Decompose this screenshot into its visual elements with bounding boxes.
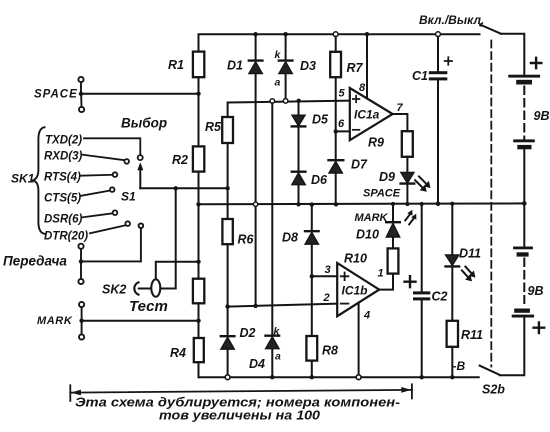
terminal SPACE xyxy=(78,77,84,112)
wire R2 down through test column xyxy=(198,172,200,279)
node switch pivot xyxy=(479,23,482,26)
R7-D7 COLUMN x=335.7 xyxy=(329,32,369,207)
wire pin 3 stub xyxy=(312,275,337,277)
svg-text:4: 4 xyxy=(363,310,370,322)
svg-text:D10: D10 xyxy=(356,228,379,242)
brace SK1 xyxy=(33,127,44,234)
wire mid rail to cell 3 xyxy=(523,203,525,246)
svg-text:Передача: Передача xyxy=(3,254,67,269)
wire pin 8 to top rail xyxy=(366,34,368,98)
battery dashed section xyxy=(523,87,525,140)
wire cell2 to mid rail xyxy=(523,149,525,203)
wire C1 to mid rail xyxy=(437,80,439,204)
plus mark C2 xyxy=(405,276,416,287)
node S1 common contact xyxy=(138,155,143,160)
svg-text:k: k xyxy=(275,49,282,61)
svg-text:R1: R1 xyxy=(168,58,184,72)
node D3 bottom (open) xyxy=(283,99,288,104)
diode D4 xyxy=(249,336,279,371)
node bottom rail xyxy=(450,375,454,379)
svg-text:S2b: S2b xyxy=(482,383,505,397)
svg-text:D4: D4 xyxy=(249,357,265,371)
wire D11 to R11 xyxy=(451,266,453,320)
switch blade top xyxy=(481,25,501,34)
wire switch to battery top xyxy=(501,34,525,75)
svg-text:D11: D11 xyxy=(459,247,481,261)
wire pin 4 to bottom rail xyxy=(358,303,360,375)
svg-text:1: 1 xyxy=(378,268,384,280)
svg-text:D3: D3 xyxy=(300,59,316,73)
plus mark C1 xyxy=(445,57,452,64)
svg-text:SPACE: SPACE xyxy=(363,188,401,200)
node CTS contact xyxy=(110,187,115,192)
svg-text:9В: 9В xyxy=(528,284,544,298)
wire DSR stub xyxy=(82,213,113,217)
op-amp IC1b triangle xyxy=(337,263,379,316)
wire R1 to R2 xyxy=(198,77,200,146)
svg-text:6: 6 xyxy=(338,118,345,130)
svg-text:DTR(20): DTR(20) xyxy=(44,231,88,243)
svg-text:-В: -В xyxy=(453,359,466,373)
node mid rail xyxy=(450,202,454,206)
svg-text:D1: D1 xyxy=(227,59,243,73)
svg-text:7: 7 xyxy=(397,102,404,114)
wire pin 2 net xyxy=(228,304,338,307)
capacitor C2 xyxy=(413,290,448,304)
terminal Peredacha (transmit) xyxy=(78,244,83,284)
node pin 4 bottom (open) xyxy=(356,375,361,380)
wire D5 to D6 xyxy=(298,126,300,171)
R9-D9 COLUMN xyxy=(363,131,431,206)
wire R3 to R4 xyxy=(198,303,200,338)
wire R10 to IC1b output xyxy=(379,274,393,290)
node pin3 junction xyxy=(310,274,314,278)
svg-text:SK2: SK2 xyxy=(102,283,126,297)
diode D3 xyxy=(279,34,316,73)
battery cell 2 xyxy=(513,139,535,149)
plus mark battery top xyxy=(531,58,541,68)
svg-text:R10: R10 xyxy=(344,252,367,266)
left tick xyxy=(69,385,71,401)
wire R9 to D9 xyxy=(406,157,408,173)
svg-text:R8: R8 xyxy=(322,344,338,358)
wire R6 to D2 xyxy=(227,244,229,336)
D10-R10 COLUMN xyxy=(344,202,416,290)
LED D9 (points down) xyxy=(379,170,414,184)
node top rail (open) xyxy=(333,32,338,37)
wire bottom -9V rail xyxy=(199,376,479,378)
svg-text:R2: R2 xyxy=(172,153,188,167)
switch S1 wiper xyxy=(121,116,230,204)
svg-text:3: 3 xyxy=(325,264,331,276)
svg-text:8: 8 xyxy=(359,82,366,94)
node DSR contact xyxy=(113,210,118,215)
node mid rail xyxy=(334,202,338,206)
minus input mark xyxy=(353,129,360,131)
left arrowhead xyxy=(71,390,81,396)
wire branch down to mid rail and D4 xyxy=(271,103,273,377)
svg-text:MARK: MARK xyxy=(355,212,389,224)
wire C2 to bottom rail xyxy=(421,300,423,377)
svg-text:R9: R9 xyxy=(368,136,384,150)
right arrowhead xyxy=(401,387,411,393)
wire D1 down to pin2 net xyxy=(255,74,257,306)
node mid rail left end xyxy=(196,202,200,206)
wire mid rail to C2 xyxy=(421,204,423,291)
wire to D8 xyxy=(311,205,313,232)
wire plug tip to test column xyxy=(156,262,199,280)
svg-text:MARK: MARK xyxy=(37,315,73,327)
wire R7 to D7 xyxy=(335,77,337,160)
svg-text:D2: D2 xyxy=(240,326,256,340)
LEFT TERMINALS xyxy=(3,77,143,340)
svg-text:Вкл./Выкл.: Вкл./Выкл. xyxy=(419,13,484,27)
svg-text:R6: R6 xyxy=(238,233,255,247)
D1 COLUMN x=255.6 xyxy=(227,32,262,308)
svg-text:S1: S1 xyxy=(121,190,136,204)
diode D8 xyxy=(282,231,319,245)
OP-AMP IC1b xyxy=(228,263,380,380)
wire SK2 to vertical xyxy=(139,188,176,288)
LED D11 (points down) xyxy=(446,247,482,267)
OP-AMP IC1a xyxy=(336,32,408,140)
svg-text:R5: R5 xyxy=(205,120,222,134)
right tick xyxy=(411,384,413,398)
wire top rail to C1 xyxy=(437,37,439,72)
node R5-R6 junction xyxy=(225,186,229,190)
switch linkage dashed xyxy=(490,41,492,367)
svg-text:R11: R11 xyxy=(461,328,483,342)
wire R4 to bottom rail xyxy=(198,362,200,377)
svg-text:9В: 9В xyxy=(534,109,550,123)
wire D2 to bottom rail xyxy=(227,349,229,374)
wire R11 to bottom rail xyxy=(451,347,453,377)
node top rail (open) xyxy=(436,32,441,37)
svg-text:DSR(6): DSR(6) xyxy=(44,214,83,226)
wire D10 to R10 xyxy=(392,237,394,248)
plus input mark xyxy=(353,96,360,103)
resistor R3 (unlabeled, test) xyxy=(193,279,204,304)
plus input mark xyxy=(341,273,349,281)
node mid rail xyxy=(296,202,300,206)
LED D9 arrows xyxy=(415,176,430,191)
node crossing mid rail (open) xyxy=(253,202,257,206)
wire top +9V rail xyxy=(199,34,480,52)
wire R8 to bottom rail xyxy=(311,361,313,378)
diode D1 xyxy=(227,34,262,73)
svg-text:R7: R7 xyxy=(347,61,364,75)
svg-text:IC1b: IC1b xyxy=(342,284,368,298)
wire D7 to mid rail xyxy=(335,173,337,204)
wire D3 to pin5 net xyxy=(285,74,287,99)
node mid rail D8 top xyxy=(310,202,314,206)
wire cell4 to switch S2b xyxy=(500,318,525,376)
minus input mark xyxy=(341,303,349,305)
svg-text:C2: C2 xyxy=(432,290,448,304)
C1 COLUMN x=438 xyxy=(412,32,452,206)
wire mid rail to D10 xyxy=(392,204,394,222)
node mid rail xyxy=(405,202,409,206)
terminal MARK xyxy=(79,302,84,340)
svg-text:IC1a: IC1a xyxy=(354,108,380,122)
resistor R1 xyxy=(168,52,204,78)
wire output pin 7 to R9 xyxy=(393,114,408,131)
svg-text:C1: C1 xyxy=(412,69,428,83)
MAIN LEFT COLUMN x=198.5 xyxy=(168,52,204,378)
connector SK2 arc xyxy=(134,282,138,294)
C2 COLUMN x=421.7 xyxy=(405,202,448,380)
node D1 top xyxy=(253,32,257,36)
resistor R10 xyxy=(344,248,398,273)
wire RTS stub xyxy=(81,174,113,177)
D8-R8 COLUMN x=311.8 xyxy=(282,202,338,379)
node pin2 wire junction xyxy=(253,304,257,308)
wire mid rail to D11 xyxy=(451,204,453,255)
node mid rail D10 xyxy=(391,202,395,206)
resistor R5 xyxy=(205,117,233,143)
wire CTS stub xyxy=(81,191,110,196)
battery cell 1 xyxy=(508,75,540,85)
resistor R8 xyxy=(306,336,338,361)
node MARK junction xyxy=(196,319,200,323)
wire pin 6 stub xyxy=(336,130,350,132)
svg-text:R4: R4 xyxy=(170,346,186,360)
node SPACE junction xyxy=(196,92,200,96)
resistor R6 xyxy=(222,219,254,247)
node mid rail xyxy=(436,202,441,207)
wire D9 to mid rail xyxy=(406,184,408,205)
diode D7 xyxy=(329,158,369,174)
svg-text:SK1: SK1 xyxy=(11,172,35,186)
node pin5 net junction xyxy=(297,99,301,103)
wire SPACE line xyxy=(83,93,199,95)
svg-text:2: 2 xyxy=(323,292,330,304)
wire to R7 xyxy=(335,37,337,52)
wire D6 to mid rail xyxy=(298,185,300,205)
node bottom rail open xyxy=(225,375,230,380)
node pin 8 top rail xyxy=(365,32,369,36)
op-amp IC1a triangle xyxy=(350,88,393,140)
POWER SWITCH top xyxy=(419,13,524,367)
node bottom rail xyxy=(310,375,314,379)
node mid rail xyxy=(420,202,424,206)
svg-text:Тест: Тест xyxy=(129,298,168,315)
svg-text:D7: D7 xyxy=(351,158,368,172)
wire RXD stub xyxy=(82,155,125,161)
node DTR contact xyxy=(125,221,130,226)
BATTERY COLUMN x=524.3 xyxy=(480,58,550,397)
D5-D6 COLUMN x=298.5 xyxy=(292,99,329,207)
svg-text:тов увеличены на 100: тов увеличены на 100 xyxy=(159,409,320,423)
svg-text:RXD(3): RXD(3) xyxy=(44,151,83,163)
diode D6 xyxy=(292,172,328,187)
svg-text:D5: D5 xyxy=(312,113,329,127)
battery dashed section 2 xyxy=(523,259,525,304)
D11-R11 COLUMN x=452.3 xyxy=(446,202,484,380)
battery cell 4 xyxy=(512,309,534,318)
svg-text:D6: D6 xyxy=(311,173,328,187)
svg-text:CTS(5): CTS(5) xyxy=(44,193,81,205)
DIMENSION NOTE xyxy=(70,384,412,422)
node D3 top xyxy=(283,32,287,36)
node pin6 junction xyxy=(334,129,338,133)
node RTS contact xyxy=(113,172,118,177)
wire Peredacha to DTR contact xyxy=(83,228,141,261)
node mid rail right end xyxy=(522,201,527,206)
LED D11 arrows xyxy=(462,267,476,282)
diode D2 xyxy=(221,326,256,349)
svg-text:TXD(2): TXD(2) xyxy=(45,135,82,147)
svg-text:Эта схема дублируется; номера: Эта схема дублируется; номера компонен- xyxy=(75,396,400,410)
svg-text:RTS(4): RTS(4) xyxy=(44,172,81,184)
svg-text:a: a xyxy=(275,77,281,89)
svg-text:a: a xyxy=(275,351,281,363)
wire D8 to R8 xyxy=(311,244,313,336)
node RXD contact xyxy=(124,159,129,164)
wire mid rail (0V) xyxy=(199,202,525,205)
dimension line xyxy=(70,390,412,393)
diode D5 (points down) xyxy=(292,101,329,127)
svg-text:5: 5 xyxy=(339,88,346,100)
svg-text:D8: D8 xyxy=(282,231,298,245)
wire S1 wiper to R5 column xyxy=(140,187,227,189)
node test column junction xyxy=(196,260,200,264)
resistor R9 xyxy=(368,131,413,157)
resistor R7 xyxy=(330,52,363,77)
node DTR output contact xyxy=(139,223,144,228)
R5-R6 COLUMN x=227.6 xyxy=(205,101,350,380)
battery cell 3 xyxy=(513,247,533,257)
LED D10 arrows xyxy=(405,210,416,225)
jack plug oval xyxy=(151,279,160,296)
wire DTR stub xyxy=(90,225,125,233)
node SK2 branch xyxy=(174,186,178,190)
switch S2b blade xyxy=(480,366,500,375)
node pin2 wire junction xyxy=(225,304,229,308)
wire MARK line xyxy=(84,320,199,322)
capacitor C1 xyxy=(412,69,447,83)
SK1 connector group xyxy=(11,127,143,242)
node D6-branch (open) xyxy=(270,99,275,104)
resistor R2 xyxy=(172,146,204,171)
SK2 test jack xyxy=(102,188,201,315)
LED D10 (points up) xyxy=(356,222,400,241)
wire TXD to S1 common xyxy=(84,138,140,155)
D3 COLUMN x=285.6 xyxy=(249,32,316,379)
wire comparator + input (pin 5 net) xyxy=(228,101,350,117)
svg-text:D9: D9 xyxy=(379,170,395,184)
node bottom rail xyxy=(270,375,274,379)
resistor R4 xyxy=(170,338,204,362)
resistor R11 xyxy=(447,321,483,347)
svg-text:SPACE: SPACE xyxy=(34,89,78,101)
wire R5 to R6 xyxy=(227,143,229,219)
plus mark battery bottom xyxy=(534,322,545,333)
svg-text:Выбор: Выбор xyxy=(121,116,167,131)
node bottom rail xyxy=(420,375,424,379)
